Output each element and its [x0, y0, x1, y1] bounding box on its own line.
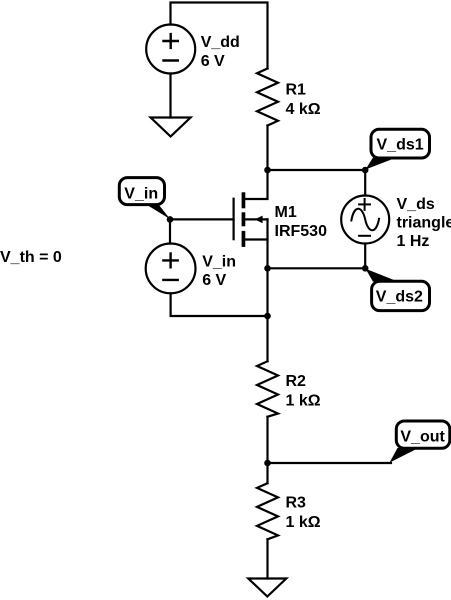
svg-text:1 kΩ: 1 kΩ — [286, 514, 321, 531]
svg-text:4 kΩ: 4 kΩ — [286, 101, 321, 118]
svg-text:V_ds2: V_ds2 — [376, 288, 423, 305]
svg-text:V_ds1: V_ds1 — [377, 137, 424, 154]
svg-text:6 V: 6 V — [202, 272, 226, 289]
svg-text:1 kΩ: 1 kΩ — [286, 392, 321, 409]
svg-text:V_dd: V_dd — [201, 34, 240, 51]
svg-text:R1: R1 — [286, 81, 307, 98]
svg-text:IRF530: IRF530 — [275, 223, 328, 240]
svg-text:V_in: V_in — [124, 186, 158, 203]
svg-text:M1: M1 — [275, 204, 297, 221]
svg-text:1 Hz: 1 Hz — [397, 233, 430, 250]
svg-text:V_ds: V_ds — [397, 196, 435, 213]
svg-text:V_out: V_out — [400, 428, 445, 445]
svg-text:6 V: 6 V — [201, 53, 225, 70]
svg-text:R3: R3 — [286, 494, 307, 511]
svg-text:R2: R2 — [286, 373, 307, 390]
svg-text:triangle: triangle — [397, 214, 451, 231]
svg-text:V_th = 0: V_th = 0 — [0, 249, 62, 266]
svg-text:V_in: V_in — [202, 253, 236, 270]
